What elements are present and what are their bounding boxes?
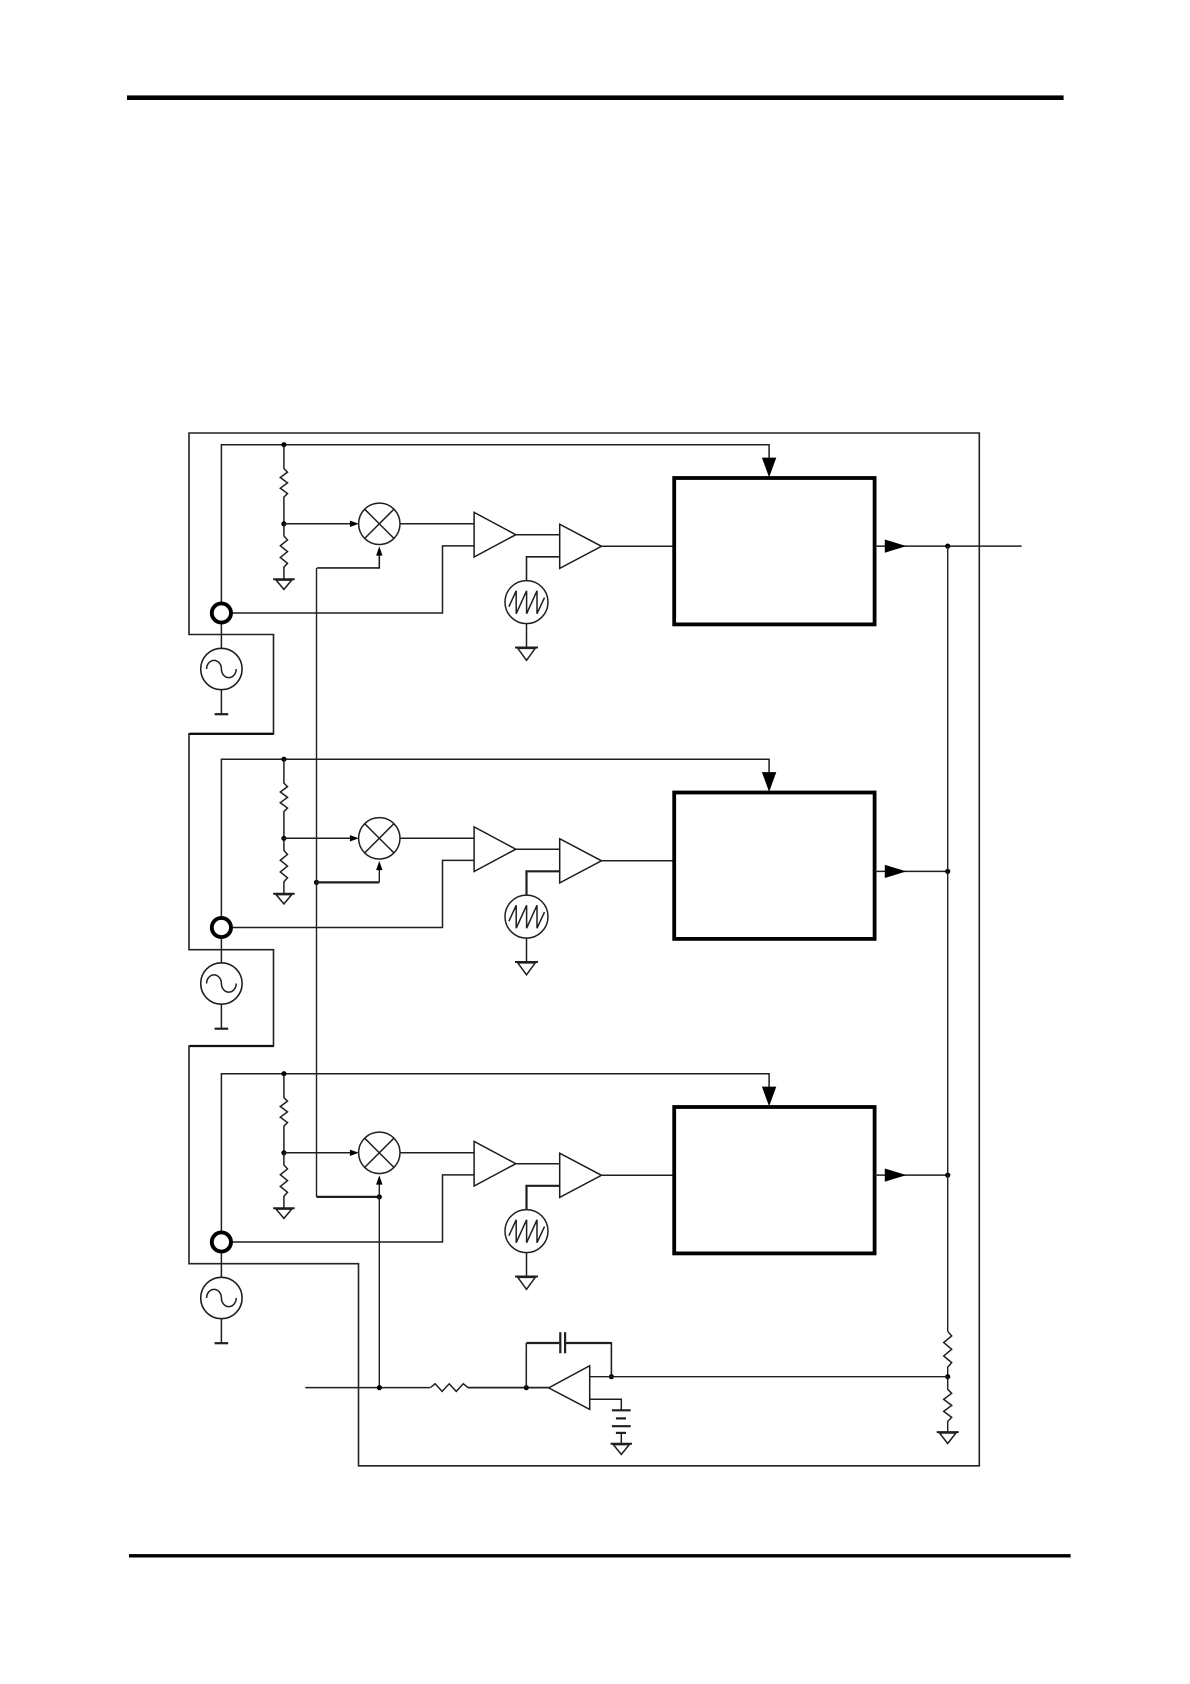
wire: mid tap to mixer U2 <box>284 837 351 839</box>
op-amp A1B (second amplifier) <box>560 524 602 568</box>
op-amp A3B (second amplifier) <box>560 1153 602 1197</box>
wire: R3B leads <box>283 1153 285 1208</box>
source V1 (sine source) <box>201 648 242 689</box>
wire: mixer U2 output <box>400 837 474 839</box>
wire: mid tap to mixer U3 <box>284 1152 351 1154</box>
wire: sawtooth OSC2 to A2B <box>527 871 560 895</box>
DAC block U4 <box>674 478 874 624</box>
signal-ground bar (source V3) <box>215 1342 229 1344</box>
ground (divider R1B) <box>273 579 295 589</box>
ground (OSC3) <box>515 1277 538 1290</box>
top rule <box>127 95 1064 100</box>
op-amp A2B (second amplifier) <box>560 839 602 883</box>
resistor R4 (bus upper) <box>944 1331 952 1367</box>
DAC block U6 <box>674 1107 874 1253</box>
wire: OSC1 ground lead <box>526 624 528 648</box>
wire: A1B to DAC1 <box>602 545 675 547</box>
wire: output summing bus <box>947 546 949 1331</box>
port IN1 <box>212 603 231 622</box>
sawtooth oscillator OSC3 <box>505 1210 548 1253</box>
sawtooth oscillator OSC1 <box>505 581 548 624</box>
resistor R5 (bus lower) <box>944 1389 952 1421</box>
wire: DAC1 output <box>875 545 1022 547</box>
ground (OSC2) <box>515 962 538 975</box>
wire: port IN3 stem / reference line / drop to DAC3 <box>221 1074 769 1231</box>
wire: DAC3 output <box>875 1174 948 1176</box>
node: feedback tap at op-amp output <box>524 1385 529 1390</box>
port IN2 <box>212 918 231 937</box>
wire: source V3 return lead <box>220 1319 222 1344</box>
wire: R5 upper lead <box>947 1377 949 1390</box>
ground (divider R3B) <box>273 1208 295 1218</box>
wire: channel-3 gain drop to feedback node <box>378 1197 380 1388</box>
resistor R1A (upper divider) <box>280 469 287 498</box>
arrowhead into mixer U3 <box>350 1150 359 1156</box>
arrowhead DAC1 output <box>885 540 907 553</box>
wire: battery to ground <box>620 1433 622 1444</box>
ground (R5) <box>937 1432 959 1443</box>
wire: port IN1 to amplifier A1A <box>232 546 474 613</box>
wire: R5 lower lead <box>947 1421 949 1432</box>
mixer U2 (multiplier) <box>359 818 400 859</box>
ground (OSC1) <box>515 648 538 661</box>
IC boundary notch edge (below source V2) <box>190 1045 274 1047</box>
wire: OSC2 ground lead <box>526 938 528 962</box>
resistor R2A (upper divider) <box>280 783 287 812</box>
wire: feedback top right <box>566 1342 611 1344</box>
node: divider R1A top junction <box>281 442 286 447</box>
arrowhead into mixer U2 <box>350 835 359 841</box>
wire: mid tap to mixer U1 <box>284 523 351 525</box>
wire: port IN1 to source V1 <box>220 624 222 648</box>
wire: port IN2 to source V2 <box>220 939 222 963</box>
wire: feedback top left <box>526 1342 559 1344</box>
node: op-amp inverting input junction <box>609 1374 614 1379</box>
wire: DAC2 output <box>875 870 948 872</box>
source V3 (sine source) <box>201 1277 242 1318</box>
node: divider mid tap <box>281 1150 286 1155</box>
wire: R1A leads <box>283 445 285 524</box>
wire: R1B leads <box>283 524 285 579</box>
wire: A3B to DAC3 <box>602 1174 675 1176</box>
node: gain node junction <box>377 1385 382 1390</box>
op-amp A3A (first amplifier) <box>474 1141 516 1186</box>
wire: source V1 return lead <box>220 690 222 715</box>
wire: mixer U1 output <box>400 523 474 525</box>
DAC block U5 <box>674 793 874 939</box>
wire: A3A to A3B <box>516 1163 560 1165</box>
wire: A1A to A1B <box>516 534 560 536</box>
mixer U3 (multiplier) <box>359 1132 400 1173</box>
resistor R3B (lower divider) <box>280 1165 287 1196</box>
node: feedback sense node <box>945 1374 950 1379</box>
wire: A2A to A2B <box>516 848 560 850</box>
wire: gain feed to mixer U3 <box>317 1196 380 1198</box>
node: output bus junction OUT1 <box>945 544 950 549</box>
wire: source V2 return lead <box>220 1004 222 1028</box>
wire: mixer U3 bottom lead <box>378 1183 380 1197</box>
wire: feedback riser <box>525 1343 527 1388</box>
source V2 (sine source) <box>201 963 242 1004</box>
arrowhead into DAC1 top <box>762 458 776 478</box>
op-amp U7 (error amplifier) <box>549 1366 590 1410</box>
IC boundary (chip outline) <box>189 433 979 1466</box>
wire: op-amp reference input <box>590 1399 622 1410</box>
capacitor C1 (feedback) <box>560 1332 565 1353</box>
node: output bus junction OUT2 <box>945 869 950 874</box>
wire: feedback drop to input node <box>610 1342 612 1377</box>
node: divider R2A top junction <box>281 757 286 762</box>
signal-ground bar (source V2) <box>215 1028 229 1030</box>
wire: sawtooth OSC1 to A1B <box>527 557 560 581</box>
arrowhead into mixer U1 bottom <box>376 546 382 555</box>
wire: sawtooth OSC3 to A3B <box>527 1186 560 1210</box>
wire: R6 to op-amp U7 <box>468 1387 549 1389</box>
arrowhead into mixer U2 bottom <box>376 861 382 870</box>
IC boundary notch edge (below source V1) <box>190 733 274 735</box>
mixer U1 (multiplier) <box>359 503 400 544</box>
node: divider R3A top junction <box>281 1071 286 1076</box>
node: gain bus / mixer 3 junction <box>377 1194 382 1199</box>
signal-ground bar (source V1) <box>215 713 229 715</box>
resistor R2B (lower divider) <box>280 851 287 882</box>
wire: R2A leads <box>283 759 285 838</box>
node: output bus junction OUT3 <box>945 1173 950 1178</box>
wire: R2B leads <box>283 838 285 893</box>
op-amp A2A (first amplifier) <box>474 827 516 872</box>
arrowhead into mixer U1 <box>350 521 359 527</box>
op-amp A1A (first amplifier) <box>474 512 516 557</box>
ground (battery V4) <box>611 1444 633 1455</box>
wire: gain feed to mixer U1 <box>317 554 379 568</box>
battery V4 (reference) <box>612 1410 631 1433</box>
wire: port IN2 stem / reference line / drop to DAC2 <box>221 759 769 916</box>
bottom rule <box>129 1554 1071 1557</box>
wire: R3A leads <box>283 1074 285 1153</box>
wire: gain bus vertical (mixer drive) <box>316 568 318 1197</box>
wire: port IN3 to amplifier A3A <box>232 1175 474 1242</box>
wire: OSC3 ground lead <box>526 1253 528 1277</box>
arrowhead into DAC2 top <box>762 772 776 792</box>
node: divider mid tap <box>281 521 286 526</box>
wire: mixer U2 bottom lead <box>378 869 380 883</box>
wire: op-amp input from sense node <box>590 1376 948 1378</box>
resistor R1B (lower divider) <box>280 536 287 567</box>
arrowhead into mixer U3 bottom <box>376 1175 382 1184</box>
node: divider mid tap <box>281 836 286 841</box>
wire: gain feed to mixer U2 <box>317 881 380 883</box>
arrowhead into DAC3 top <box>762 1087 776 1107</box>
resistor R3A (upper divider) <box>280 1098 287 1127</box>
wire: port IN1 stem / reference line / drop to DAC1 <box>221 445 769 602</box>
resistor R6 (op-amp input) <box>430 1384 468 1392</box>
wire: mixer U3 output <box>400 1152 474 1154</box>
wire: A2B to DAC2 <box>602 860 675 862</box>
wire: port IN3 to source V3 <box>220 1253 222 1277</box>
wire: reference input line <box>305 1387 430 1389</box>
arrowhead DAC2 output <box>885 865 907 878</box>
arrowhead DAC3 output <box>885 1169 907 1182</box>
sawtooth oscillator OSC2 <box>505 895 548 938</box>
node: gain bus tap (channel 2) <box>314 880 319 885</box>
port IN3 <box>212 1232 231 1251</box>
wire: port IN2 to amplifier A2A <box>232 860 474 927</box>
ground (divider R2B) <box>273 894 295 904</box>
wire: R4 lower lead <box>947 1367 949 1377</box>
